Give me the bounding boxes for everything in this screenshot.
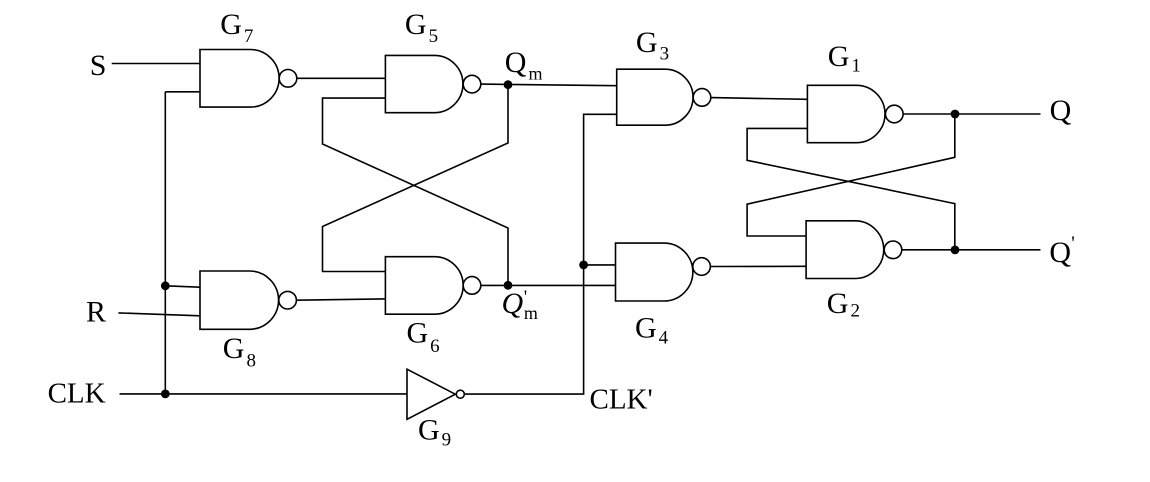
wire S input: [112, 63, 200, 65]
junction dot Q: [951, 110, 960, 119]
wire G7 output to G5: [297, 77, 386, 79]
wire Qm net to G3: [481, 84, 617, 86]
wire CLK' to G4 input stub: [584, 264, 616, 266]
wire CLK to G7 lower input stub: [165, 91, 200, 93]
svg-text:Q: Q: [1049, 236, 1071, 269]
svg-text:Q: Q: [1050, 94, 1072, 127]
nand gate G2: [806, 221, 902, 279]
wire CLK' net: [464, 114, 616, 394]
svg-text:R: R: [86, 296, 106, 329]
wire G4 output to G2: [710, 265, 806, 267]
wire Q' feedback to G1 input: [747, 128, 955, 250]
junction dot Q'm: [504, 281, 513, 290]
nand gate G5: [385, 55, 480, 112]
nand gate G1: [807, 85, 903, 142]
wire Q output: [903, 113, 1040, 115]
wire Q feedback to G2 input: [747, 114, 955, 236]
junction dot CLK line: [161, 390, 170, 399]
wire Q' output: [902, 249, 1041, 251]
junction dot Q': [951, 246, 960, 255]
wire Qm feedback to G6 input: [323, 85, 509, 272]
junction dot Qm: [504, 80, 513, 89]
svg-text:S: S: [90, 49, 107, 82]
nand gate G3: [617, 69, 711, 125]
nand gate G8: [200, 271, 296, 329]
wire Q'm net to G4: [481, 284, 616, 286]
svg-text:CLK: CLK: [48, 377, 106, 409]
nand gate G4: [616, 243, 711, 301]
svg-text:Q: Q: [502, 287, 524, 320]
junction dot CLK-G8: [161, 281, 170, 290]
wire G8 upper input stub: [165, 286, 200, 287]
svg-text:CLK': CLK': [590, 384, 653, 416]
wire CLK input: [120, 393, 408, 395]
wire G8 output to G6: [296, 299, 385, 300]
wire R input: [118, 313, 200, 316]
wire G3 output to G1: [711, 98, 808, 100]
nand gate G7: [200, 50, 297, 108]
svg-text:m: m: [524, 303, 538, 323]
wire Q'm feedback to G5 input: [323, 98, 509, 285]
svg-text:': ': [1071, 233, 1075, 255]
inverter G9: [407, 369, 464, 419]
junction dot CLK'-G4: [579, 261, 588, 270]
wire CLK vertical branch: [164, 92, 166, 394]
nand gate G6: [385, 257, 480, 315]
